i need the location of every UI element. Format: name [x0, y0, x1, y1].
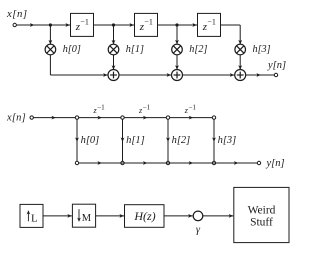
svg-text:Weird: Weird — [248, 205, 276, 217]
svg-text:Stuff: Stuff — [250, 216, 273, 228]
svg-text:L: L — [31, 212, 38, 224]
svg-text:h[2]: h[2] — [172, 135, 191, 146]
svg-text:h[3]: h[3] — [218, 135, 237, 146]
svg-text:x[n]: x[n] — [6, 113, 26, 124]
svg-text:y[n]: y[n] — [267, 60, 286, 71]
svg-text:x[n]: x[n] — [6, 8, 28, 20]
svg-text:h[1]: h[1] — [126, 135, 145, 146]
svg-text:h[2]: h[2] — [189, 44, 207, 55]
svg-text:h[0]: h[0] — [63, 44, 81, 55]
svg-text:H(z): H(z) — [133, 209, 155, 223]
svg-text:M: M — [82, 213, 92, 224]
svg-text:y[n]: y[n] — [266, 158, 285, 169]
svg-text:h[3]: h[3] — [253, 44, 271, 55]
svg-text:h[1]: h[1] — [126, 44, 144, 55]
svg-text:h[0]: h[0] — [81, 135, 100, 146]
